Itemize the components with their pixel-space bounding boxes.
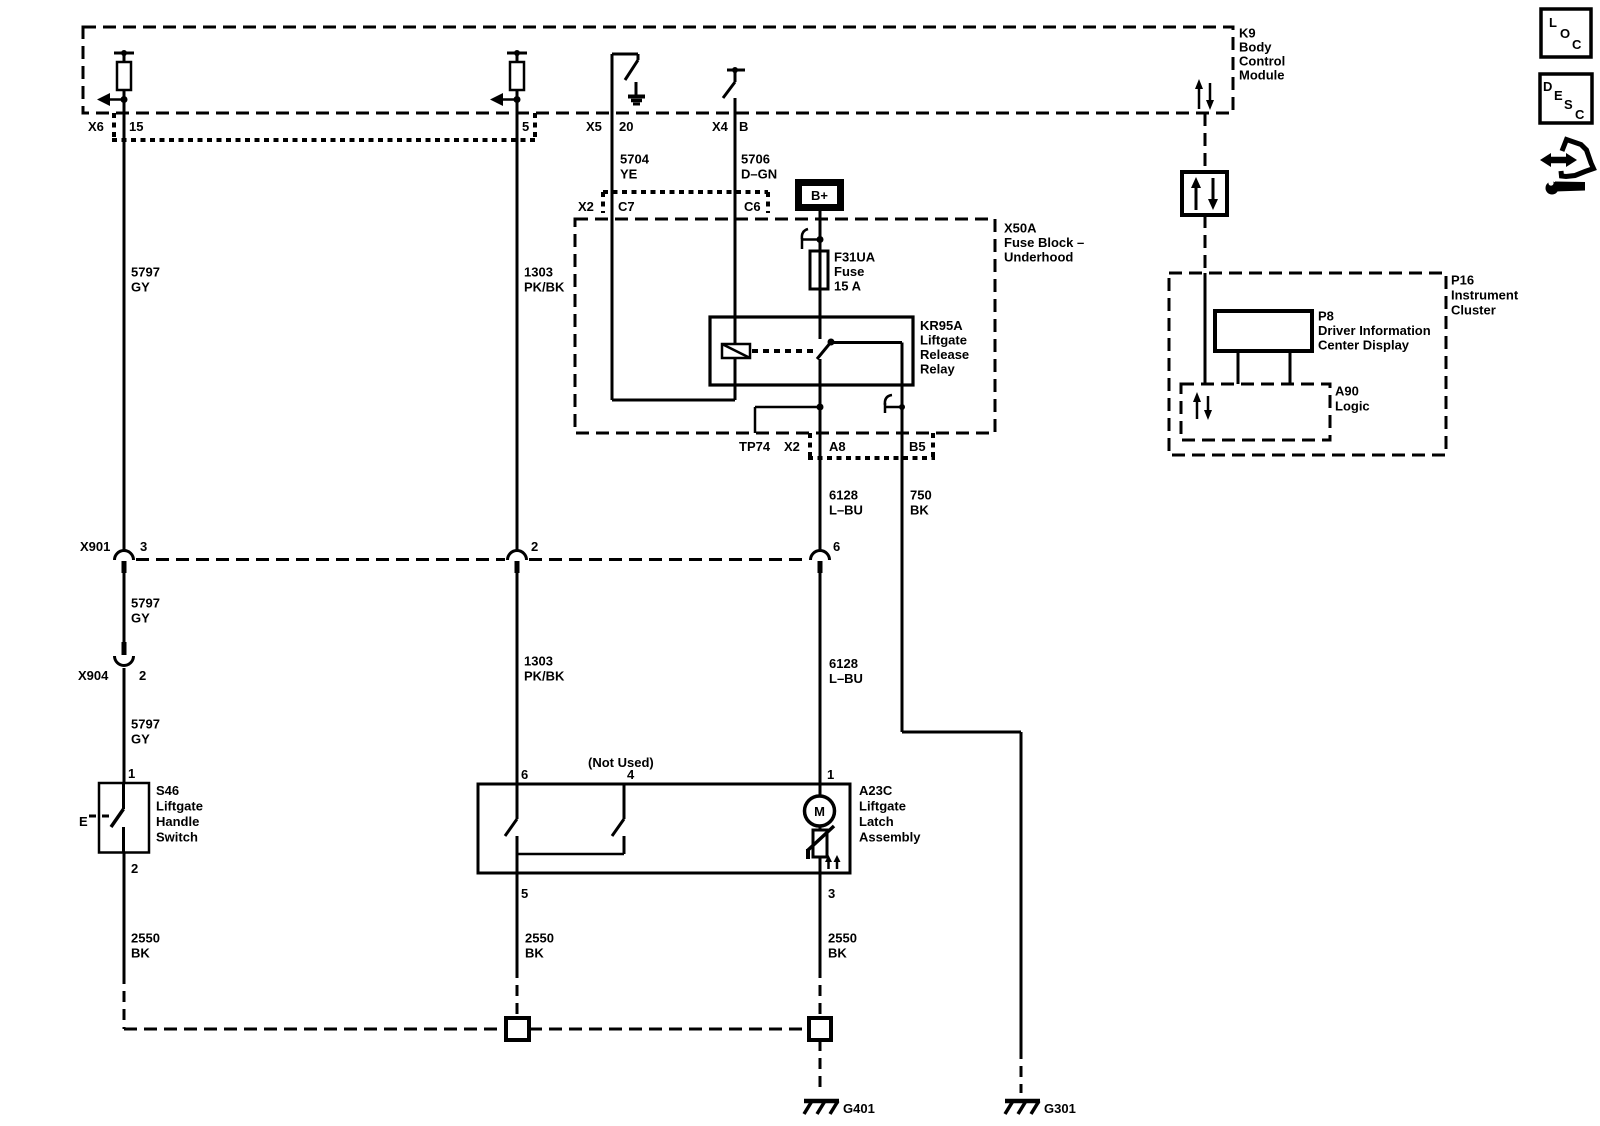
svg-text:E: E — [1554, 88, 1563, 103]
svg-text:6: 6 — [833, 539, 840, 554]
svg-text:A23C: A23C — [859, 783, 893, 798]
svg-text:D: D — [1543, 79, 1552, 94]
svg-text:C6: C6 — [744, 199, 761, 214]
svg-text:2550: 2550 — [828, 931, 857, 946]
svg-text:2550: 2550 — [131, 931, 160, 946]
svg-text:C: C — [1572, 37, 1582, 52]
svg-text:G301: G301 — [1044, 1101, 1076, 1116]
svg-text:Cluster: Cluster — [1451, 303, 1496, 318]
svg-text:15: 15 — [129, 119, 143, 134]
svg-text:Liftgate: Liftgate — [156, 799, 203, 814]
svg-text:1: 1 — [827, 767, 834, 782]
svg-text:6128: 6128 — [829, 488, 858, 503]
svg-text:M: M — [814, 804, 825, 819]
svg-text:5797: 5797 — [131, 596, 160, 611]
svg-text:F31UA: F31UA — [834, 250, 876, 265]
svg-text:(Not Used): (Not Used) — [588, 755, 654, 770]
svg-text:5797: 5797 — [131, 717, 160, 732]
svg-text:6128: 6128 — [829, 656, 858, 671]
svg-text:Body: Body — [1239, 40, 1272, 55]
svg-text:6: 6 — [521, 767, 528, 782]
svg-text:2: 2 — [131, 861, 138, 876]
svg-text:Fuse: Fuse — [834, 264, 864, 279]
svg-text:Instrument: Instrument — [1451, 288, 1519, 303]
svg-text:S: S — [1564, 97, 1573, 112]
svg-text:5704: 5704 — [620, 152, 650, 167]
svg-text:X5: X5 — [586, 119, 602, 134]
svg-text:1303: 1303 — [524, 654, 553, 669]
svg-text:2: 2 — [531, 539, 538, 554]
svg-text:X50A: X50A — [1004, 221, 1037, 236]
svg-text:P8: P8 — [1318, 309, 1334, 324]
svg-text:Logic: Logic — [1335, 399, 1370, 414]
svg-text:TP74: TP74 — [739, 439, 771, 454]
svg-text:X2: X2 — [578, 199, 594, 214]
svg-text:5797: 5797 — [131, 265, 160, 280]
svg-text:5706: 5706 — [741, 152, 770, 167]
svg-text:KR95A: KR95A — [920, 318, 963, 333]
svg-text:X4: X4 — [712, 119, 729, 134]
svg-text:B+: B+ — [811, 188, 828, 203]
svg-text:B5: B5 — [909, 439, 926, 454]
svg-text:X901: X901 — [80, 539, 110, 554]
svg-text:X2: X2 — [784, 439, 800, 454]
svg-text:X904: X904 — [78, 668, 109, 683]
svg-text:2550: 2550 — [525, 931, 554, 946]
svg-text:A8: A8 — [829, 439, 846, 454]
svg-text:Underhood: Underhood — [1004, 250, 1073, 265]
svg-text:X6: X6 — [88, 119, 104, 134]
svg-text:L: L — [1549, 15, 1557, 30]
svg-text:3: 3 — [828, 886, 835, 901]
svg-text:Assembly: Assembly — [859, 830, 921, 845]
svg-text:B: B — [739, 119, 748, 134]
svg-text:20: 20 — [619, 119, 633, 134]
svg-text:BK: BK — [131, 946, 150, 961]
svg-text:BK: BK — [910, 503, 929, 518]
svg-text:O: O — [1560, 26, 1570, 41]
svg-text:3: 3 — [140, 539, 147, 554]
svg-text:S46: S46 — [156, 783, 179, 798]
svg-text:E: E — [79, 814, 88, 829]
svg-text:1303: 1303 — [524, 265, 553, 280]
svg-text:750: 750 — [910, 488, 932, 503]
svg-text:Relay: Relay — [920, 362, 955, 377]
svg-text:Switch: Switch — [156, 830, 198, 845]
svg-text:GY: GY — [131, 280, 150, 295]
svg-text:Module: Module — [1239, 68, 1285, 83]
svg-text:15 A: 15 A — [834, 279, 862, 294]
svg-text:Center Display: Center Display — [1318, 338, 1410, 353]
svg-text:BK: BK — [525, 946, 544, 961]
svg-text:GY: GY — [131, 732, 150, 747]
svg-text:1: 1 — [128, 766, 135, 781]
svg-text:5: 5 — [521, 886, 528, 901]
svg-text:PK/BK: PK/BK — [524, 280, 565, 295]
svg-text:BK: BK — [828, 946, 847, 961]
svg-text:Fuse Block –: Fuse Block – — [1004, 235, 1084, 250]
svg-text:PK/BK: PK/BK — [524, 669, 565, 684]
svg-text:Control: Control — [1239, 54, 1285, 69]
svg-text:L–BU: L–BU — [829, 503, 863, 518]
svg-text:D–GN: D–GN — [741, 167, 777, 182]
svg-text:A90: A90 — [1335, 384, 1359, 399]
svg-text:C7: C7 — [618, 199, 635, 214]
svg-text:G401: G401 — [843, 1101, 875, 1116]
svg-text:L–BU: L–BU — [829, 671, 863, 686]
svg-text:C: C — [1575, 107, 1585, 122]
svg-text:Release: Release — [920, 347, 969, 362]
svg-text:2: 2 — [139, 668, 146, 683]
svg-text:4: 4 — [627, 767, 635, 782]
svg-text:5: 5 — [522, 119, 529, 134]
svg-text:Driver Information: Driver Information — [1318, 323, 1431, 338]
svg-text:Latch: Latch — [859, 814, 894, 829]
svg-text:P16: P16 — [1451, 273, 1474, 288]
svg-text:Liftgate: Liftgate — [920, 333, 967, 348]
svg-text:Liftgate: Liftgate — [859, 799, 906, 814]
svg-text:Handle: Handle — [156, 814, 199, 829]
svg-text:YE: YE — [620, 167, 638, 182]
svg-text:K9: K9 — [1239, 26, 1256, 41]
svg-text:GY: GY — [131, 611, 150, 626]
